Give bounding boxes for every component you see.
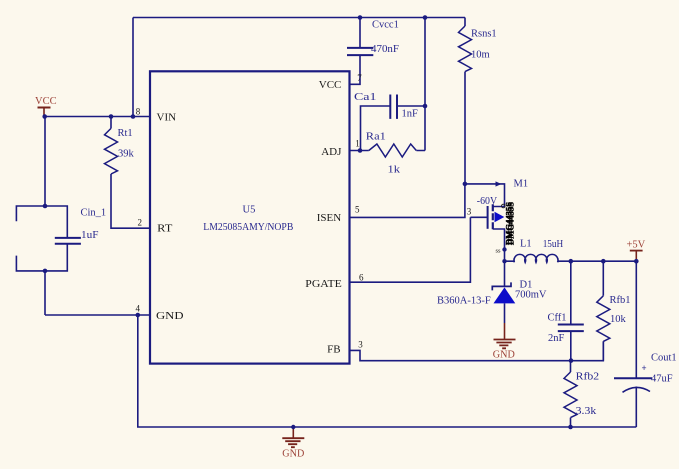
- svg-text:+5V: +5V: [627, 240, 646, 251]
- svg-text:10k: 10k: [610, 314, 627, 325]
- svg-text:DMG4435S: DMG4435S: [505, 201, 514, 245]
- svg-text:3: 3: [467, 207, 472, 217]
- svg-text:U5: U5: [243, 205, 256, 216]
- svg-text:ADJ: ADJ: [321, 146, 342, 158]
- svg-text:1: 1: [355, 138, 360, 148]
- svg-text:5: 5: [355, 205, 360, 215]
- svg-text:Rt1: Rt1: [118, 128, 133, 139]
- svg-text:Cvcc1: Cvcc1: [372, 20, 399, 31]
- svg-text:6: 6: [359, 273, 364, 283]
- svg-text:+: +: [642, 363, 647, 373]
- svg-text:1k: 1k: [388, 165, 401, 176]
- svg-text:Ca1: Ca1: [354, 92, 377, 103]
- svg-text:Cff1: Cff1: [548, 313, 567, 324]
- svg-text:8: 8: [136, 107, 141, 117]
- svg-text:39k: 39k: [118, 149, 135, 160]
- svg-text:Rsns1: Rsns1: [471, 29, 497, 40]
- svg-text:M1: M1: [514, 179, 529, 190]
- svg-text:3.3k: 3.3k: [576, 406, 597, 417]
- svg-text:LM25085AMY/NOPB: LM25085AMY/NOPB: [203, 222, 293, 233]
- svg-text:47uF: 47uF: [651, 374, 673, 385]
- svg-text:GND: GND: [282, 449, 304, 460]
- svg-text:GND: GND: [493, 350, 515, 361]
- svg-text:VCC: VCC: [35, 96, 57, 107]
- svg-text:RT: RT: [157, 222, 173, 234]
- svg-text:VCC: VCC: [319, 79, 342, 91]
- svg-text:2: 2: [138, 218, 143, 228]
- svg-text:3: 3: [358, 339, 363, 349]
- svg-text:Rfb1: Rfb1: [610, 295, 631, 306]
- svg-text:Rfb2: Rfb2: [576, 372, 600, 383]
- svg-text:470nF: 470nF: [371, 44, 399, 55]
- svg-text:2nF: 2nF: [548, 333, 565, 344]
- svg-text:Ra1: Ra1: [366, 132, 386, 143]
- svg-text:PGATE: PGATE: [305, 278, 342, 290]
- svg-text:-60V: -60V: [477, 196, 498, 207]
- svg-text:VIN: VIN: [157, 111, 177, 123]
- svg-text:Cout1: Cout1: [651, 353, 677, 364]
- svg-text:1uF: 1uF: [81, 230, 99, 241]
- svg-text:FB: FB: [327, 344, 340, 356]
- svg-text:ss: ss: [496, 248, 502, 255]
- svg-text:L1: L1: [520, 239, 532, 250]
- svg-text:ISEN: ISEN: [317, 212, 342, 224]
- svg-text:4: 4: [136, 304, 141, 314]
- svg-text:700mV: 700mV: [515, 290, 547, 301]
- svg-text:1nF: 1nF: [402, 109, 419, 120]
- svg-text:7: 7: [357, 73, 362, 83]
- svg-text:10m: 10m: [471, 50, 490, 61]
- svg-text:Cin_1: Cin_1: [81, 208, 107, 219]
- svg-text:GND: GND: [156, 310, 184, 322]
- svg-text:B360A-13-F: B360A-13-F: [437, 296, 491, 307]
- svg-text:15uH: 15uH: [543, 239, 564, 250]
